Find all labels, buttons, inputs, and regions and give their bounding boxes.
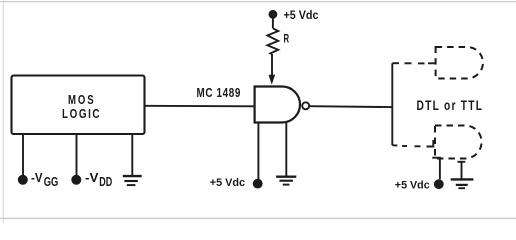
-VDD supply terminal <box>71 171 112 189</box>
svg-text:+5 Vdc: +5 Vdc <box>395 179 430 191</box>
wire: MOS logic -VGG pin <box>22 134 24 176</box>
bottom DTL/TTL gate (dashed outline) <box>435 126 482 159</box>
wire: MOS logic ground pin <box>131 134 133 175</box>
dashed wire: junction to top DTL/TTL gate input <box>392 62 435 64</box>
wire with arrow: resistor R to gate top pin <box>269 54 276 85</box>
svg-text:MC 1489: MC 1489 <box>197 85 242 100</box>
wire: gate output to fan-out junction <box>310 105 393 108</box>
junction branch line (fan-out to DTL/TTL loads) <box>391 63 393 145</box>
wire: MOS logic -VDD pin <box>76 134 78 176</box>
resistor R <box>267 28 278 54</box>
wire: gate ground pin <box>285 123 287 177</box>
ground (bottom right) <box>451 179 474 188</box>
+5 Vdc terminal (bottom middle) <box>210 177 263 189</box>
wire: +5 Vdc terminal to resistor R <box>272 17 274 28</box>
wire: gate bottom pin to +5 Vdc terminal <box>257 123 259 180</box>
top DTL/TTL gate (dashed outline) <box>436 47 483 79</box>
svg-text:R: R <box>284 32 290 46</box>
output inversion bubble <box>302 102 309 109</box>
ground (bottom middle) <box>276 177 296 185</box>
svg-text:+5 Vdc: +5 Vdc <box>284 10 320 22</box>
line receiver gate MC1489 (NAND body) <box>255 87 300 123</box>
MOS logic block <box>12 76 145 135</box>
svg-text:DTL or TTL: DTL or TTL <box>417 98 484 113</box>
+5 Vdc terminal (bottom right) <box>395 179 444 191</box>
svg-text:LOGIC: LOGIC <box>62 107 101 121</box>
ground (under MOS logic) <box>123 176 142 185</box>
svg-text:+5 Vdc: +5 Vdc <box>210 177 245 189</box>
wire: bottom gate pin to +5 Vdc terminal (bottom right) <box>432 158 440 180</box>
dashed wire: junction to bottom DTL/TTL gate input <box>392 140 433 147</box>
-VGG supply terminal <box>18 171 58 189</box>
+5 Vdc supply terminal (top) <box>269 10 320 22</box>
wire: bottom gate ground pin <box>458 162 466 179</box>
wire: MOS logic output to MC1489 input pin <box>144 105 255 108</box>
svg-text:MOS: MOS <box>68 93 96 107</box>
